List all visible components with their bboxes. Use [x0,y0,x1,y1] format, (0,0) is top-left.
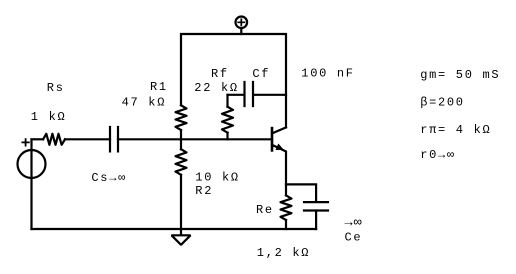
svg-text:Cf: Cf [252,67,270,81]
svg-text:47 kΩ: 47 kΩ [122,96,167,110]
svg-text:gm= 50 mS: gm= 50 mS [420,68,500,82]
svg-text:R2: R2 [195,184,213,198]
svg-text:→∞: →∞ [345,216,363,231]
svg-text:100 nF: 100 nF [301,67,354,81]
svg-text:R1: R1 [150,80,168,94]
svg-text:10 kΩ: 10 kΩ [195,170,240,184]
svg-text:1,2 kΩ: 1,2 kΩ [257,246,310,260]
svg-text:Rf: Rf [211,67,229,81]
svg-text:β=200: β=200 [420,95,465,109]
svg-text:Rs: Rs [47,81,65,95]
svg-text:22 kΩ: 22 kΩ [194,81,239,95]
svg-text:1 kΩ: 1 kΩ [31,110,67,124]
svg-text:rπ= 4 kΩ: rπ= 4 kΩ [420,123,491,137]
svg-text:r0→∞: r0→∞ [420,148,456,162]
svg-text:Cs→∞: Cs→∞ [91,171,127,185]
svg-text:Re: Re [256,203,274,217]
svg-text:Ce: Ce [345,231,363,245]
